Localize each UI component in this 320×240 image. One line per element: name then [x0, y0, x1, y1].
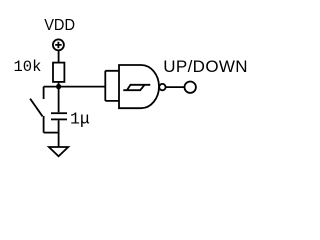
svg-text:VDD: VDD [44, 17, 75, 34]
resistor R1 [53, 63, 64, 82]
wire switch return to ground rail [44, 132, 59, 134]
wire horizontal node to switch and gate [44, 86, 106, 88]
ground [49, 147, 68, 156]
gate input tie bar [105, 71, 119, 101]
wire capacitor to ground [58, 120, 60, 147]
svg-text:UP/DOWN: UP/DOWN [163, 57, 248, 76]
svg-text:10k: 10k [14, 58, 42, 76]
NAND gate U1 (Schmitt trigger) [119, 65, 159, 108]
hysteresis symbol [123, 85, 150, 90]
output terminal UP/DOWN [185, 82, 196, 93]
svg-text:1μ: 1μ [70, 109, 90, 128]
wire resistor to node [58, 82, 60, 87]
wire gate output to terminal [166, 86, 185, 88]
node A junction [56, 84, 61, 89]
capacitor C1 [51, 113, 67, 119]
wire terminal to resistor [58, 50, 60, 62]
power terminal VDD [53, 39, 64, 50]
inversion bubble [159, 84, 165, 90]
switch S1 [30, 87, 43, 133]
wire node to capacitor [58, 87, 60, 113]
